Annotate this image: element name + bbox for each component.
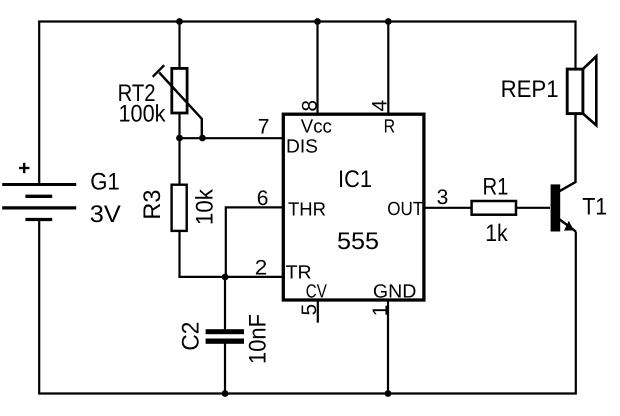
wire pin 8	[316, 22, 318, 116]
svg-text:OUT: OUT	[387, 199, 423, 220]
wire bottom rail with left and right risers	[39, 219, 576, 394]
svg-text:3: 3	[437, 186, 449, 209]
svg-text:7: 7	[258, 116, 270, 139]
op-amp IC1 555 box	[283, 114, 424, 300]
node TR junction	[222, 274, 229, 281]
speaker REP1	[567, 56, 596, 125]
wire C2 bottom lead	[224, 343, 226, 394]
svg-text:R3: R3	[139, 190, 166, 220]
wire pin 3 (OUT) to R1	[424, 207, 471, 209]
wire RT2 bottom lead	[178, 113, 180, 138]
node RT2 bottom	[176, 135, 183, 142]
resistor R1	[472, 201, 516, 215]
transistor T1	[551, 114, 576, 232]
wire pin 4	[387, 22, 389, 116]
svg-text:R: R	[384, 117, 396, 138]
trimmer RT2	[153, 65, 202, 138]
svg-text:DIS: DIS	[286, 136, 318, 157]
resistor R3	[172, 185, 187, 231]
wire pin 5 stub	[317, 300, 319, 323]
battery G1	[2, 185, 76, 220]
svg-text:1k: 1k	[485, 220, 508, 247]
svg-text:T1: T1	[582, 193, 607, 220]
svg-text:THR: THR	[288, 200, 326, 221]
svg-text:6: 6	[257, 187, 269, 210]
svg-text:REP1: REP1	[501, 76, 559, 103]
svg-text:G1: G1	[90, 168, 120, 195]
node bottom GND	[385, 390, 392, 397]
node bottom C2	[222, 390, 229, 397]
battery plus sign	[19, 163, 30, 173]
svg-text:555: 555	[337, 228, 379, 255]
capacitor C2	[206, 329, 244, 344]
wire RT2 top lead	[178, 22, 180, 70]
node top pin 8	[314, 18, 321, 25]
svg-text:1: 1	[369, 305, 392, 317]
svg-text:100k: 100k	[119, 101, 167, 128]
wire R3 bottom lead to TR	[180, 231, 285, 277]
wire C2 top lead	[224, 277, 226, 330]
wire top rail with left and right drops	[39, 22, 575, 185]
svg-text:Vcc: Vcc	[301, 117, 332, 138]
svg-text:C2: C2	[177, 322, 204, 351]
node RT2 wiper	[199, 135, 206, 142]
wire R3 top lead	[178, 138, 180, 185]
wire pin 7 (DIS)	[180, 137, 285, 139]
svg-text:10nF: 10nF	[245, 314, 272, 364]
svg-text:5: 5	[298, 304, 321, 316]
node top RT2	[176, 18, 183, 25]
svg-text:GND: GND	[373, 282, 417, 303]
svg-text:10k: 10k	[192, 188, 219, 225]
wire pin 1 (GND)	[387, 300, 389, 394]
svg-text:CV: CV	[306, 282, 327, 303]
svg-text:3V: 3V	[90, 201, 121, 228]
wire pin 6 (THR)	[226, 207, 284, 277]
svg-text:IC1: IC1	[338, 166, 372, 193]
node top pin 4	[385, 18, 392, 25]
svg-text:8: 8	[299, 100, 322, 112]
wire R1 to T1 base	[517, 207, 551, 209]
svg-text:2: 2	[255, 257, 267, 280]
svg-text:R1: R1	[483, 174, 509, 201]
svg-text:4: 4	[368, 99, 391, 111]
